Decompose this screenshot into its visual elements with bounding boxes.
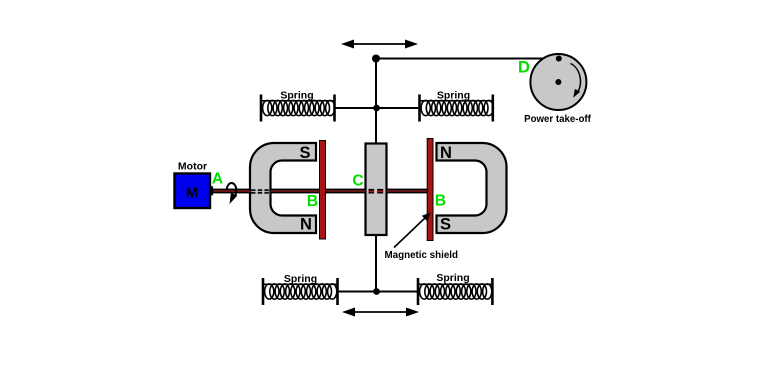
spring bottom-left right end bar	[336, 278, 339, 305]
spring top-left right end bar	[333, 95, 336, 122]
svg-text:B: B	[435, 193, 446, 210]
magnet right horseshoe	[437, 143, 507, 233]
svg-text:Spring: Spring	[436, 272, 469, 284]
motor box M	[175, 174, 211, 209]
wire: top spring crossbar	[335, 107, 420, 109]
spring bottom-left coil	[264, 284, 337, 299]
arrow: bottom motion double arrow	[342, 308, 419, 317]
spring top-right right end bar	[491, 95, 494, 122]
spring bottom-right right end bar	[491, 278, 494, 305]
svg-text:Spring: Spring	[284, 273, 317, 285]
svg-text:N: N	[440, 144, 452, 162]
motor shaft stub	[210, 186, 213, 195]
pole piece bar B (right)	[427, 139, 433, 241]
svg-text:D: D	[518, 59, 530, 77]
svg-text:B: B	[307, 193, 318, 210]
svg-text:Power take-off: Power take-off	[524, 114, 592, 125]
node: top junction	[372, 55, 380, 63]
wire: bottom spring crossbar	[338, 291, 419, 293]
node: bottom spring junction	[373, 288, 380, 295]
shaft dashes in shield column	[369, 189, 384, 194]
spring top-left left end bar	[260, 95, 263, 122]
spring top-left coil	[262, 100, 335, 115]
spring top-right left end bar	[418, 95, 421, 122]
rotation arrow on shaft (A)	[227, 183, 238, 204]
svg-text:N: N	[300, 216, 312, 234]
power take-off wheel	[530, 54, 586, 110]
wire: top horizontal link to power take-off	[376, 58, 559, 60]
shaft segment motor to left magnet	[213, 189, 251, 194]
svg-text:Motor: Motor	[178, 161, 207, 173]
magnetic shield column C	[366, 144, 387, 236]
svg-text:Spring: Spring	[437, 90, 470, 102]
spring bottom-right left end bar	[417, 278, 420, 305]
svg-text:A: A	[212, 171, 223, 188]
spring bottom-right coil	[419, 284, 492, 299]
wire: center vertical link	[375, 59, 377, 292]
magnetic shield leader line	[394, 218, 426, 248]
shaft dashes in left magnet leg	[251, 190, 270, 193]
spring top-right coil	[421, 100, 494, 115]
magnetic shield leader arrowhead	[422, 213, 431, 222]
shaft segment column to right bar	[387, 189, 429, 194]
magnet left horseshoe	[250, 143, 316, 233]
svg-text:S: S	[299, 144, 310, 162]
node: top spring junction	[373, 105, 380, 112]
shaft segment through magnet gap	[271, 189, 366, 194]
svg-text:S: S	[440, 216, 451, 234]
svg-text:C: C	[352, 173, 363, 190]
wheel center axle	[555, 79, 561, 85]
pole piece bar B (left)	[320, 141, 326, 240]
svg-text:M: M	[186, 185, 199, 202]
svg-text:Spring: Spring	[280, 90, 313, 102]
svg-text:Magnetic shield: Magnetic shield	[385, 250, 459, 261]
arrow: top motion double arrow	[341, 40, 418, 49]
wheel crank pin	[556, 56, 562, 62]
spring bottom-left left end bar	[262, 278, 265, 305]
wheel rotation arrow	[571, 64, 581, 98]
